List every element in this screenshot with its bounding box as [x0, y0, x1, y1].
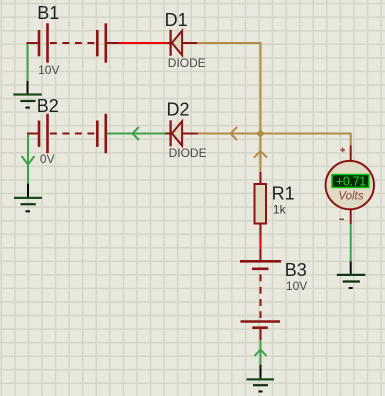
svg-text:0V: 0V — [40, 152, 55, 166]
voltmeter display — [332, 175, 369, 188]
svg-text:Volts: Volts — [338, 191, 363, 203]
svg-text:R1: R1 — [272, 184, 295, 204]
battery B3 — [240, 261, 281, 327]
voltmeter - pin — [350, 209, 352, 224]
wire corner down to junction — [260, 42, 262, 134]
current arrow up below junction — [254, 151, 267, 158]
wire corner down to voltmeter (dark yellow) — [350, 133, 352, 146]
svg-text:B1: B1 — [37, 3, 59, 23]
current arrow up on B3 ground wire — [255, 350, 267, 357]
wire stub into D2 cathode — [165, 133, 170, 135]
ground GND3 — [247, 365, 275, 392]
voltmeter + pin — [350, 146, 352, 162]
ground GND2 — [14, 184, 42, 212]
ground GND1 — [13, 81, 41, 108]
current arrow left on D2-junction wire — [231, 127, 238, 140]
svg-text:10V: 10V — [38, 63, 59, 77]
current arrow down on B2 ground wire — [22, 156, 35, 165]
wire B1 right pin stub — [107, 42, 119, 44]
junction node — [256, 129, 264, 137]
wire R1 to B3 (red hot) — [260, 237, 262, 248]
wire junction down to R1 (dark yellow) — [260, 134, 262, 172]
plus terminal mark — [340, 148, 345, 153]
voltmeter U1 body — [326, 161, 374, 209]
wire into B1 left pin — [27, 42, 38, 44]
diode D1 — [171, 30, 198, 56]
wire voltmeter to ground (green) — [350, 224, 352, 262]
minus terminal mark — [339, 218, 344, 220]
wire stub into B3 top pin — [260, 248, 262, 261]
svg-text:1k: 1k — [273, 203, 287, 217]
current arrow left on B2-D2 wire — [132, 127, 139, 140]
svg-text:+0.71: +0.71 — [336, 175, 366, 189]
battery B1 — [39, 23, 106, 62]
diode D2 — [171, 120, 198, 146]
wire from B2 left terminal down — [27, 134, 29, 184]
svg-text:D1: D1 — [165, 10, 188, 30]
wire B2 to D2 (green) — [107, 133, 165, 135]
svg-text:B2: B2 — [37, 96, 59, 116]
R1 bottom pin — [260, 224, 262, 238]
svg-text:B3: B3 — [285, 260, 307, 280]
svg-text:DIODE: DIODE — [168, 56, 206, 70]
R1 top pin — [260, 172, 262, 184]
svg-text:10V: 10V — [286, 279, 307, 293]
wire from B1 left terminal down to ground — [27, 43, 29, 81]
wire B3 to ground (green) — [260, 340, 262, 364]
svg-text:DIODE: DIODE — [169, 146, 207, 160]
wire stub into D1 cathode — [167, 42, 170, 44]
ground GND4 — [337, 262, 366, 289]
battery B2 — [39, 114, 106, 153]
wire D1 to corner (dark yellow) — [197, 42, 260, 44]
wire B1 to D1 (red hot) — [119, 42, 167, 44]
resistor R1 — [255, 184, 267, 224]
svg-text:D2: D2 — [167, 100, 190, 120]
wire into B2 left pin — [27, 133, 38, 135]
B3 bottom pin — [260, 329, 262, 341]
wire D2 to voltmeter corner (dark yellow) — [198, 133, 351, 135]
